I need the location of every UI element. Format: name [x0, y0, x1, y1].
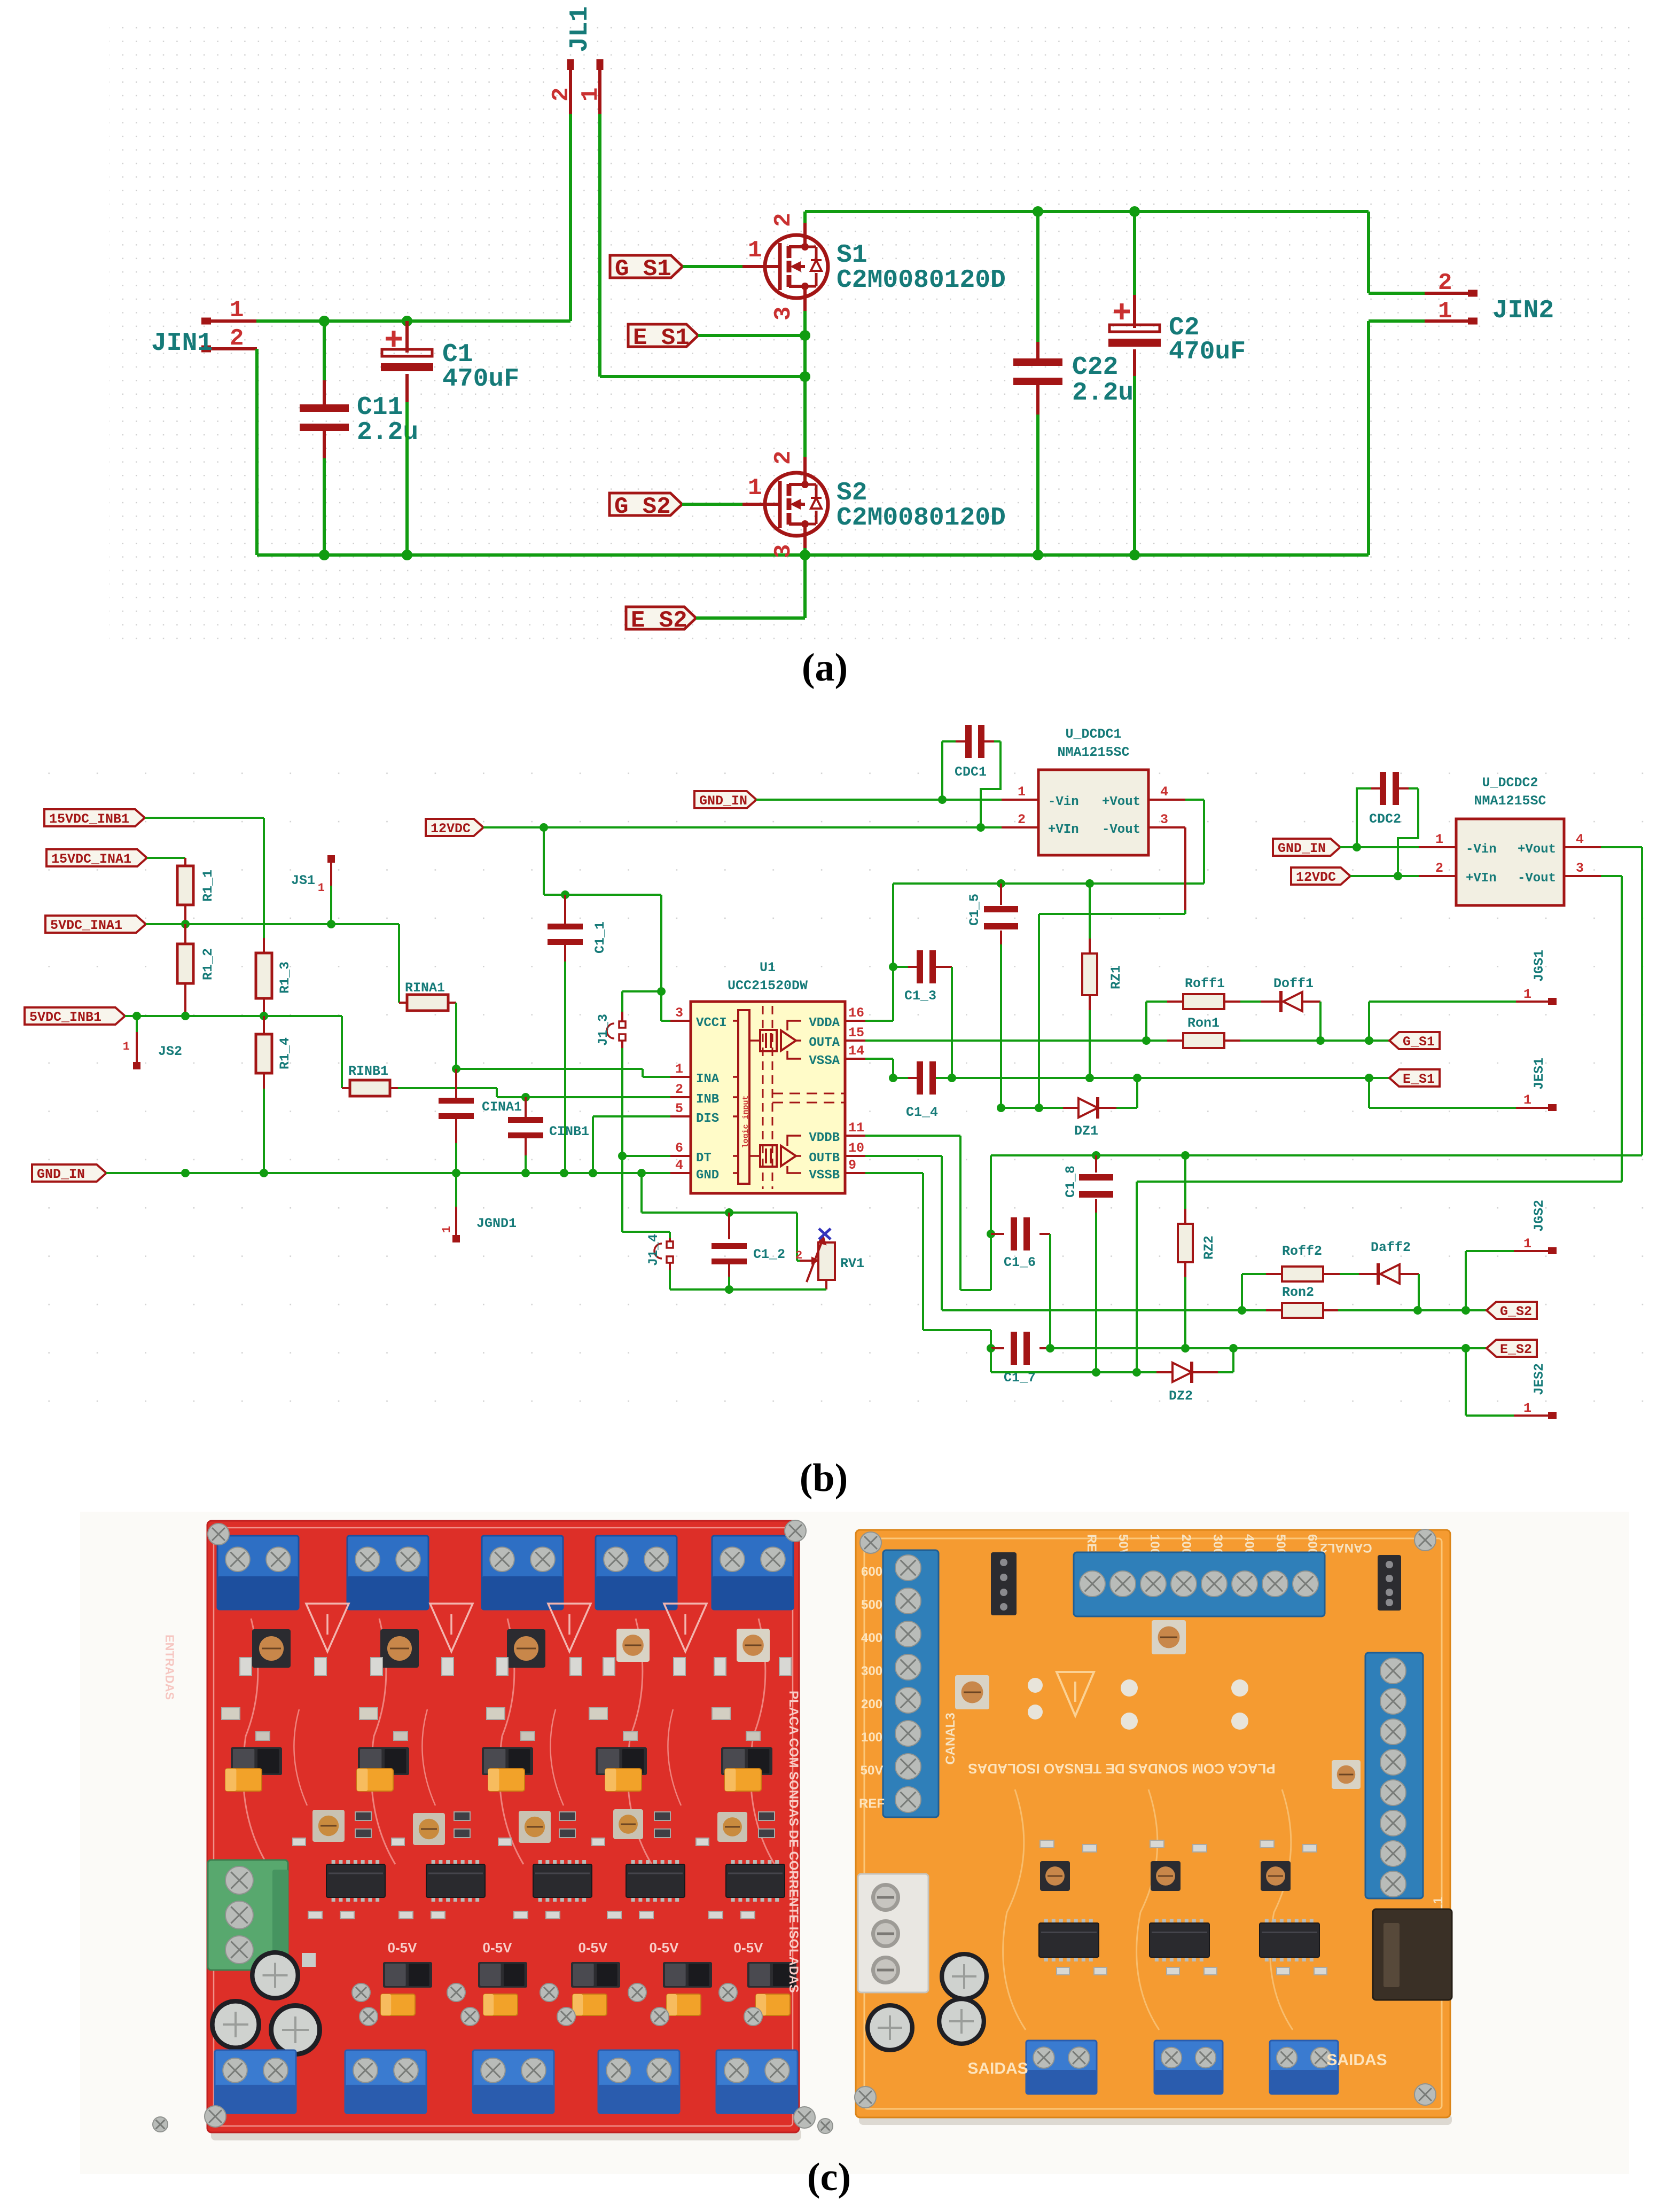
photo red PCB corner screws — [153, 1520, 833, 2133]
photo red PCB top terminal blocks — [217, 1536, 793, 1609]
label G_S1 — [610, 255, 765, 283]
svg-text:6: 6 — [675, 1140, 683, 1156]
svg-text:Daff2: Daff2 — [1371, 1240, 1411, 1255]
photo red PCB small caps row — [222, 1708, 760, 1740]
svg-text:+Vout: +Vout — [1518, 842, 1556, 857]
photo red PCB gain trimmers row2 — [293, 1809, 775, 1846]
junction dots bottom rail — [319, 550, 1140, 560]
svg-text:(b): (b) — [800, 1456, 848, 1500]
svg-text:0-5V: 0-5V — [483, 1940, 513, 1956]
svg-text:SAIDAS: SAIDAS — [1326, 2051, 1387, 2069]
svg-text:UCC21520DW: UCC21520DW — [728, 978, 808, 994]
svg-text:OUTB: OUTB — [809, 1151, 840, 1166]
transistor S1 — [748, 212, 1006, 321]
svg-text:1: 1 — [1523, 987, 1531, 1002]
diode Daff2 — [1340, 1240, 1419, 1310]
svg-text:100: 100 — [861, 1730, 882, 1745]
svg-text:15VDC_INA1: 15VDC_INA1 — [51, 851, 131, 867]
svg-text:C1_1: C1_1 — [592, 921, 608, 953]
svg-text:R1_4: R1_4 — [277, 1037, 293, 1069]
svg-text:200: 200 — [861, 1697, 882, 1711]
svg-text:C2M0080120D: C2M0080120D — [837, 504, 1006, 533]
svg-text:CINA1: CINA1 — [482, 1099, 522, 1115]
wire -Vout down — [1035, 827, 1185, 1112]
photo orange PCB SOIC ICs — [1039, 1840, 1327, 1975]
svg-text:CDC2: CDC2 — [1369, 811, 1401, 827]
resistor RINA1 — [399, 924, 456, 1011]
capacitor C1_3 — [893, 950, 952, 1078]
photo orange PCB corner screws — [855, 1529, 1436, 2108]
svg-text:DZ1: DZ1 — [1074, 1123, 1098, 1139]
jumper J1_4 — [646, 1234, 673, 1289]
svg-text:NMA1215SC: NMA1215SC — [1057, 745, 1129, 760]
dot grid section b — [16, 759, 1651, 1448]
svg-text:RV1: RV1 — [840, 1256, 864, 1271]
svg-text:S2: S2 — [837, 479, 867, 507]
photo orange PCB SAIDAS silk — [967, 2051, 1387, 2077]
wire bottom -Vout2 row — [991, 1348, 1156, 1372]
label E_S1 — [628, 324, 805, 351]
photo red PCB perigo triangles — [306, 1604, 707, 1652]
svg-text:Roff2: Roff2 — [1282, 1244, 1322, 1259]
svg-text:G_S1: G_S1 — [615, 256, 671, 283]
svg-text:600: 600 — [861, 1565, 882, 1579]
capacitor CINA1 — [439, 1069, 522, 1173]
jumper JS2 — [123, 1016, 182, 1069]
capacitor CINB1 — [508, 1097, 589, 1173]
transistor S2 — [748, 451, 1006, 618]
svg-text:C1_3: C1_3 — [904, 988, 936, 1004]
wire RINA1 to INA — [452, 1003, 670, 1077]
label 12VDC left — [426, 819, 1002, 837]
svg-text:JES1: JES1 — [1531, 1058, 1547, 1090]
svg-text:50V: 50V — [861, 1763, 884, 1778]
label E_S2 (b) — [1487, 1340, 1537, 1357]
svg-text:-Vout: -Vout — [1102, 823, 1140, 837]
svg-text:1: 1 — [748, 237, 762, 264]
photo orange PCB left silk labels — [859, 1565, 885, 1811]
svg-text:S1: S1 — [837, 241, 867, 270]
capacitor C1_8 — [1063, 1155, 1113, 1377]
svg-text:Doff1: Doff1 — [1273, 976, 1314, 991]
label GND_IN right — [1273, 839, 1419, 856]
photo orange PCB white connector — [858, 1874, 928, 1992]
svg-text:E_S1: E_S1 — [633, 325, 690, 351]
svg-text:GND: GND — [696, 1168, 719, 1183]
label 12VDC right — [1291, 867, 1419, 885]
svg-text:4: 4 — [1576, 832, 1584, 847]
connector JES1 — [1369, 1058, 1557, 1111]
resistor Roff2 — [1242, 1244, 1340, 1310]
svg-text:4: 4 — [1160, 784, 1168, 800]
svg-text:U_DCDC1: U_DCDC1 — [1065, 726, 1121, 742]
svg-text:JGND1: JGND1 — [476, 1216, 517, 1231]
svg-text:J1_3: J1_3 — [596, 1014, 611, 1046]
capacitor C1_4 — [889, 1061, 938, 1120]
capacitor C1_6 — [991, 1217, 1050, 1348]
svg-text:5VDC_INA1: 5VDC_INA1 — [50, 918, 122, 933]
label 5VDC_INB1 — [25, 1007, 342, 1025]
svg-text:C1_8: C1_8 — [1063, 1166, 1078, 1198]
svg-text:JES2: JES2 — [1531, 1363, 1547, 1395]
svg-text:12VDC: 12VDC — [1296, 870, 1336, 885]
connector JIN1 — [151, 297, 257, 358]
svg-text:5: 5 — [675, 1101, 683, 1116]
svg-text:2: 2 — [230, 325, 244, 352]
svg-text:G_S2: G_S2 — [614, 494, 671, 520]
svg-text:GND_IN: GND_IN — [699, 793, 747, 809]
svg-text:1: 1 — [1435, 832, 1443, 847]
photo orange PCB electrolytic caps — [865, 1952, 989, 2052]
photo orange PCB left terminal column — [883, 1550, 939, 1817]
svg-text:3: 3 — [675, 1005, 683, 1021]
svg-text:JIN1: JIN1 — [151, 329, 213, 358]
svg-text:U1: U1 — [760, 960, 776, 975]
dot grid section a — [110, 17, 1636, 647]
svg-text:1: 1 — [230, 297, 244, 324]
capacitor C22 — [1013, 212, 1134, 555]
wire top-left rail JIN1.1 to JL1.2 — [256, 114, 570, 321]
capacitor CDC1 — [942, 725, 1000, 827]
wire OUTB row — [865, 1156, 1487, 1315]
svg-text:0-5V: 0-5V — [388, 1940, 418, 1956]
svg-text:E_S1: E_S1 — [1403, 1072, 1435, 1087]
svg-text:G_S2: G_S2 — [1500, 1304, 1532, 1319]
svg-text:R1_3: R1_3 — [277, 962, 293, 994]
capacitor C1 (470uF) — [381, 321, 519, 555]
label G_S2 — [609, 493, 765, 520]
svg-text:3: 3 — [770, 307, 797, 321]
connector JES2 — [1466, 1348, 1557, 1419]
svg-text:(a): (a) — [802, 646, 848, 690]
jumper JS1 — [291, 855, 335, 924]
svg-text:DIS: DIS — [696, 1112, 719, 1126]
zener DZ1 — [1001, 1078, 1137, 1139]
svg-text:1: 1 — [1523, 1092, 1531, 1108]
svg-text:R1_2: R1_2 — [200, 948, 216, 980]
svg-text:1: 1 — [1523, 1236, 1531, 1252]
svg-text:5VDC_INB1: 5VDC_INB1 — [29, 1010, 101, 1025]
wire bottom rail to JIN2.1 — [1369, 321, 1425, 555]
svg-text:+VIn: +VIn — [1048, 823, 1079, 837]
svg-text:+VIn: +VIn — [1466, 871, 1497, 886]
svg-text:4: 4 — [675, 1158, 683, 1173]
photo red PCB green connector — [208, 1860, 288, 1970]
svg-text:300: 300 — [861, 1664, 882, 1678]
label E_S2 — [626, 607, 805, 634]
label GND_IN left — [32, 1164, 670, 1182]
svg-text:J1_4: J1_4 — [646, 1234, 661, 1266]
wire VSSA row E_S1 — [865, 1059, 1389, 1082]
photo red PCB electrolytic caps — [210, 1950, 322, 2057]
jumper J1_3 — [596, 991, 661, 1156]
svg-text:G_S1: G_S1 — [1403, 1034, 1435, 1050]
svg-text:CANAL2: CANAL2 — [1320, 1541, 1372, 1555]
wire JL1.1 to phase node — [600, 114, 805, 377]
svg-text:400: 400 — [861, 1631, 882, 1645]
svg-text:SAIDAS: SAIDAS — [967, 2060, 1028, 2077]
svg-text:Ron2: Ron2 — [1282, 1285, 1314, 1300]
photo orange PCB board — [856, 1530, 1450, 2117]
capacitor C1_5 — [967, 884, 1018, 1112]
wire +Vout2 VDDB rail — [865, 847, 1642, 1290]
photo orange PCB perigo triangle — [1057, 1672, 1094, 1716]
svg-text:DZ2: DZ2 — [1169, 1388, 1193, 1404]
wire 12VDC to C1_1/VCCI — [544, 827, 670, 1021]
photo red PCB bottom terminal blocks — [215, 2050, 798, 2113]
svg-text:2: 2 — [770, 213, 797, 227]
potentiometer RV1 — [795, 1229, 864, 1289]
svg-text:C1_6: C1_6 — [1004, 1255, 1036, 1270]
svg-text:C2M0080120D: C2M0080120D — [837, 266, 1006, 295]
svg-text:RINB1: RINB1 — [348, 1064, 388, 1079]
wire OUTA row — [865, 1036, 1389, 1045]
label GND_IN top — [694, 791, 1002, 809]
svg-text:1: 1 — [1438, 298, 1452, 325]
op-amp U1 UCC21520DW — [670, 960, 865, 1193]
svg-text:-Vout: -Vout — [1518, 871, 1556, 886]
svg-text:JS2: JS2 — [158, 1044, 182, 1059]
wire VSSB row — [865, 1173, 991, 1348]
capacitor CDC2 — [1357, 772, 1418, 876]
svg-text:C1_4: C1_4 — [906, 1105, 938, 1120]
svg-text:C1_2: C1_2 — [753, 1247, 785, 1262]
svg-text:RINA1: RINA1 — [405, 980, 445, 996]
svg-text:ENTRADAS: ENTRADAS — [163, 1635, 176, 1700]
diode Doff1 — [1240, 976, 1320, 1041]
capacitor C1_2 — [712, 1213, 785, 1289]
svg-text:+Vout: +Vout — [1102, 795, 1140, 809]
resistor R1_4 — [256, 1016, 293, 1173]
photo orange PCB pin headers — [991, 1552, 1401, 1615]
resistor RZ1 — [1082, 884, 1124, 1078]
svg-text:PLACA COM SONDAS DE CORRENTE I: PLACA COM SONDAS DE CORRENTE ISOLADAS — [786, 1691, 801, 1993]
photo orange PCB right terminal column — [1365, 1653, 1423, 1898]
svg-text:1: 1 — [123, 1040, 130, 1053]
svg-text:0-5V: 0-5V — [579, 1940, 608, 1956]
photo red PCB trimmers row1 — [240, 1629, 791, 1676]
svg-text:0-5V: 0-5V — [650, 1940, 679, 1956]
wire J1_4/C1_2/RV1 bottom — [670, 1285, 826, 1294]
wire JIN1.2 down and bottom rail — [257, 349, 1369, 555]
svg-text:RZ1: RZ1 — [1108, 965, 1124, 989]
label 15VDC_INB1 — [44, 809, 264, 827]
svg-text:(c): (c) — [807, 2155, 851, 2199]
photo orange PCB top silk labels — [943, 1534, 1445, 1949]
wire +Vout rail VDDA — [865, 800, 1204, 1021]
svg-text:C1_5: C1_5 — [967, 894, 982, 926]
svg-text:GND_IN: GND_IN — [1278, 841, 1326, 856]
resistor RINB1 — [342, 1016, 398, 1096]
svg-text:CANAL3: CANAL3 — [943, 1713, 958, 1764]
svg-text:15VDC_INB1: 15VDC_INB1 — [49, 811, 129, 827]
photo orange PCB black transformer — [1373, 1909, 1452, 2000]
capacitor C1_7 — [987, 1332, 1050, 1386]
resistor Ron2 — [1266, 1285, 1338, 1318]
resistor R1_3 — [256, 938, 293, 1016]
svg-text:2: 2 — [795, 1249, 802, 1262]
wire -Vout2 row — [1132, 876, 1622, 1377]
svg-text:3: 3 — [1576, 861, 1584, 876]
DC-DC U_DCDC1 NMA1215SC — [1002, 726, 1185, 855]
svg-text:C11: C11 — [357, 393, 403, 422]
svg-text:DT: DT — [696, 1151, 712, 1166]
DC-DC U_DCDC2 NMA1215SC — [1419, 775, 1601, 905]
svg-text:470uF: 470uF — [1169, 338, 1246, 366]
photo red PCB orange caps row2 — [359, 1994, 790, 2026]
wire S1 source / phase — [800, 311, 810, 457]
svg-text:1: 1 — [440, 1226, 454, 1233]
label G_S2 (b) — [1487, 1302, 1537, 1319]
svg-text:1: 1 — [1018, 784, 1026, 800]
svg-text:2: 2 — [1018, 812, 1026, 827]
svg-text:15: 15 — [848, 1025, 864, 1041]
svg-text:1: 1 — [675, 1061, 683, 1077]
capacitor C1_1 — [548, 895, 608, 1173]
svg-text:2.2u: 2.2u — [1072, 379, 1134, 408]
capacitor C11 — [300, 321, 418, 555]
wire RINB1 to INB — [398, 1088, 670, 1101]
svg-text:14: 14 — [848, 1043, 864, 1059]
svg-text:CINB1: CINB1 — [549, 1124, 589, 1139]
svg-text:9: 9 — [848, 1158, 856, 1173]
wire DT net J1_4 — [618, 1152, 670, 1238]
svg-text:JGS2: JGS2 — [1531, 1200, 1547, 1232]
svg-text:Roff1: Roff1 — [1185, 976, 1225, 991]
svg-text:3: 3 — [770, 544, 797, 558]
svg-text:VCCI: VCCI — [696, 1016, 727, 1030]
svg-text:Ron1: Ron1 — [1187, 1015, 1220, 1031]
svg-text:RZ2: RZ2 — [1201, 1236, 1217, 1260]
svg-text:VDDA: VDDA — [809, 1016, 840, 1030]
connector JL1 — [548, 6, 604, 114]
photo orange PCB top terminal row — [1074, 1552, 1325, 1616]
svg-text:GND_IN: GND_IN — [37, 1167, 85, 1182]
svg-text:2.2u: 2.2u — [357, 418, 418, 447]
svg-text:12VDC: 12VDC — [431, 821, 471, 837]
svg-text:JGS1: JGS1 — [1531, 950, 1547, 982]
svg-text:2: 2 — [1438, 270, 1452, 296]
photo orange PCB trimmers — [955, 1620, 1361, 1789]
svg-text:E_S2: E_S2 — [1500, 1342, 1532, 1357]
svg-text:JS1: JS1 — [291, 873, 315, 888]
svg-text:-Vin: -Vin — [1048, 795, 1079, 809]
svg-text:470uF: 470uF — [442, 365, 519, 394]
svg-text:INA: INA — [696, 1072, 720, 1087]
svg-text:16: 16 — [848, 1005, 864, 1021]
resistor Roff1 — [1146, 976, 1240, 1041]
svg-text:U_DCDC2: U_DCDC2 — [1482, 775, 1538, 791]
svg-text:R1_1: R1_1 — [200, 870, 216, 902]
svg-text:VDDB: VDDB — [809, 1131, 840, 1145]
svg-text:logic input: logic input — [741, 1095, 751, 1148]
svg-text:1: 1 — [1523, 1401, 1531, 1416]
svg-text:0-5V: 0-5V — [734, 1940, 764, 1956]
svg-text:OUTA: OUTA — [809, 1036, 840, 1050]
resistor Ron1 — [1167, 1015, 1240, 1048]
resistor R1_2 — [177, 924, 216, 1016]
wire E_S2 row — [1046, 1344, 1487, 1353]
connector JGS1 — [1369, 950, 1557, 1041]
svg-text:11: 11 — [848, 1120, 864, 1136]
label E_S1 (b) — [1389, 1069, 1440, 1087]
photo orange PCB bottom terminal blocks — [1026, 2041, 1338, 2094]
svg-text:2: 2 — [1435, 861, 1443, 876]
svg-text:INB: INB — [696, 1092, 719, 1107]
svg-text:NMA1215SC: NMA1215SC — [1474, 793, 1546, 809]
wire 15VDC_INB1 to R1_3 — [263, 818, 265, 938]
connector JGND1 — [440, 1173, 517, 1242]
photo red PCB SOIC ICs — [308, 1860, 785, 1919]
zener DZ2 — [1156, 1348, 1233, 1404]
connector JIN2 — [1425, 270, 1554, 325]
label G_S1 (b) — [1389, 1032, 1440, 1050]
svg-text:2: 2 — [548, 88, 575, 101]
svg-text:1: 1 — [748, 475, 762, 502]
label 15VDC_INA1 — [46, 849, 185, 867]
svg-text:CDC1: CDC1 — [955, 764, 987, 780]
resistor R1_1 — [177, 858, 216, 924]
svg-text:REF: REF — [859, 1796, 885, 1811]
svg-text:1: 1 — [318, 881, 325, 895]
photo red PCB jumper row2 — [352, 1962, 796, 2002]
svg-text:500: 500 — [861, 1598, 882, 1612]
svg-text:2: 2 — [675, 1082, 683, 1097]
photo background — [80, 1512, 1629, 2174]
photo red PCB 0-5V silk — [388, 1940, 764, 1956]
svg-text:E_S2: E_S2 — [631, 607, 687, 634]
svg-text:VSSA: VSSA — [809, 1054, 840, 1068]
svg-text:-Vin: -Vin — [1466, 842, 1497, 857]
svg-text:JL1: JL1 — [566, 6, 595, 52]
svg-text:1: 1 — [577, 88, 604, 101]
connector JGS2 — [1466, 1200, 1557, 1310]
resistor RZ2 — [1178, 1155, 1217, 1348]
photo red PCB jumper row1 — [231, 1747, 772, 1775]
wire GND to C1_2/RV1 — [642, 1173, 800, 1261]
svg-text:PLACA COM SONDAS DE TENSAO ISO: PLACA COM SONDAS DE TENSAO ISOLADAS — [968, 1761, 1275, 1777]
junction dots top rail — [319, 316, 412, 326]
svg-text:3: 3 — [1160, 812, 1168, 827]
wire DIS to GND — [593, 1116, 670, 1173]
label 5VDC_INA1 — [45, 916, 399, 933]
svg-text:JIN2: JIN2 — [1492, 296, 1554, 325]
photo board shadows — [211, 2114, 1452, 2140]
photo red PCB board — [207, 1521, 799, 2132]
svg-text:VSSB: VSSB — [809, 1168, 840, 1183]
wire top-right rail S1 drain to JIN2 — [805, 206, 1425, 293]
photo red PCB orange caps row1 — [225, 1769, 761, 1791]
capacitor C2 (470uF) — [1108, 212, 1246, 555]
svg-text:10: 10 — [848, 1140, 864, 1156]
svg-text:2: 2 — [770, 451, 797, 465]
svg-text:C22: C22 — [1072, 353, 1118, 382]
